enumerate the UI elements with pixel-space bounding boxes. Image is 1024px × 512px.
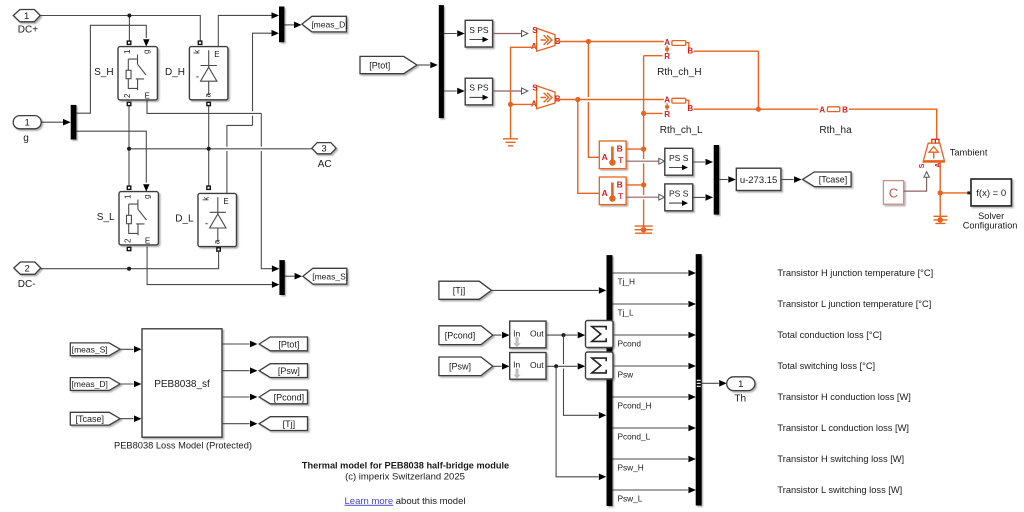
svg-text:Tj_H: Tj_H [618,276,636,286]
svg-text:a: a [203,93,212,98]
svg-text:S: S [532,84,538,93]
svg-text:PEB8038 Loss Model (Protected): PEB8038 Loss Model (Protected) [114,441,252,451]
svg-text:g: g [142,195,151,199]
svg-text:Tambient: Tambient [950,148,988,158]
svg-text:Out: Out [530,360,544,370]
svg-text:Rth_ha: Rth_ha [819,125,852,136]
svg-text:Transistor H junction temperat: Transistor H junction temperature [°C] [777,268,933,278]
svg-text:E: E [145,236,150,245]
svg-text:[meas_S]: [meas_S] [312,272,348,282]
svg-text:[Ptot]: [Ptot] [369,60,390,70]
svg-text:B: B [687,46,693,55]
svg-text:[Ptot]: [Ptot] [278,339,299,349]
svg-text:Learn more about this model: Learn more about this model [345,496,466,507]
svg-text:Pcond: Pcond [618,338,642,348]
svg-text:Configuration: Configuration [963,221,1018,231]
svg-text:R: R [664,52,670,61]
svg-text:B: B [617,143,623,153]
svg-text:A: A [819,106,825,115]
svg-text:C: C [889,185,898,200]
svg-text:DC+: DC+ [18,25,38,36]
svg-text:Psw: Psw [618,369,635,379]
svg-text:Total conduction loss [°C]: Total conduction loss [°C] [777,330,882,340]
svg-text:Solver: Solver [978,211,1004,221]
svg-text:[Psw]: [Psw] [449,362,471,372]
svg-text:[Psw]: [Psw] [278,366,300,376]
svg-text:B: B [617,179,623,189]
svg-text:[Pcond]: [Pcond] [445,330,476,340]
svg-text:1: 1 [123,194,132,199]
svg-text:[meas_S]: [meas_S] [72,345,108,355]
svg-text:[Tj]: [Tj] [283,419,296,429]
svg-text:E: E [145,91,150,100]
svg-text:A: A [602,188,608,198]
svg-text:(c) imperix Switzerland 2025: (c) imperix Switzerland 2025 [345,472,465,483]
svg-text:1: 1 [24,11,29,22]
svg-text:2: 2 [123,238,132,243]
svg-text:T: T [618,155,624,165]
svg-text:[Pcond]: [Pcond] [274,392,305,402]
svg-text:A: A [602,152,608,162]
svg-text:g: g [23,133,29,144]
svg-text:E: E [223,197,228,206]
svg-text:Rth_ch_H: Rth_ch_H [657,67,701,78]
svg-text:u-273.15: u-273.15 [740,175,778,186]
svg-text:E: E [214,50,219,59]
svg-text:Transistor H conduction loss [: Transistor H conduction loss [W] [777,392,910,402]
svg-text:2: 2 [25,264,30,275]
svg-text:Transistor L switching loss [W: Transistor L switching loss [W] [777,485,902,495]
svg-text:Tj_L: Tj_L [618,307,635,317]
svg-text:T: T [618,191,624,201]
svg-text:DC-: DC- [18,279,36,290]
svg-text:S_H: S_H [94,67,113,78]
svg-text:D_L: D_L [175,214,194,225]
svg-text:[meas_D]: [meas_D] [311,20,347,30]
svg-text:In: In [513,328,520,338]
svg-text:S: S [532,26,538,35]
svg-text:S_L: S_L [97,212,115,223]
svg-text:Transistor L conduction loss [: Transistor L conduction loss [W] [777,423,909,433]
svg-text:R: R [664,110,670,119]
svg-text:In: In [513,360,520,370]
svg-text:Transistor H switching loss [W: Transistor H switching loss [W] [777,454,904,464]
svg-text:Rth_ch_L: Rth_ch_L [660,125,703,136]
svg-text:S: S [919,163,926,168]
svg-text:a: a [212,239,221,244]
svg-text:1: 1 [738,379,743,390]
svg-text:B: B [687,104,693,113]
svg-text:Psw_H: Psw_H [618,462,644,472]
svg-text:Pcond_H: Pcond_H [618,400,652,410]
svg-text:1: 1 [123,49,132,54]
svg-text:3: 3 [321,144,326,155]
svg-text:Psw_L: Psw_L [618,493,643,503]
svg-text:AC: AC [318,159,332,170]
svg-text:[Tcase]: [Tcase] [819,175,848,185]
svg-text:Pcond_L: Pcond_L [618,431,651,441]
svg-text:1: 1 [25,118,30,129]
svg-text:Transistor L junction temperat: Transistor L junction temperature [°C] [777,299,931,309]
svg-text:PS S: PS S [669,188,689,198]
svg-text:2: 2 [123,93,132,98]
svg-text:Total switching loss [°C]: Total switching loss [°C] [777,361,875,371]
svg-text:PEB8038_sf: PEB8038_sf [154,379,210,390]
svg-text:[meas_D]: [meas_D] [72,379,108,389]
svg-text:D_H: D_H [165,67,185,78]
svg-text:g: g [142,50,151,54]
svg-text:B: B [842,106,848,115]
svg-text:PS S: PS S [669,153,689,163]
svg-text:Thermal model for PEB8038 half: Thermal model for PEB8038 half-bridge mo… [302,461,509,471]
svg-text:Th: Th [734,394,746,405]
svg-text:S PS: S PS [469,25,489,35]
svg-text:S PS: S PS [469,83,489,93]
svg-text:f(x) = 0: f(x) = 0 [976,188,1006,199]
svg-text:[Tj]: [Tj] [453,286,466,296]
svg-text:[Tcase]: [Tcase] [75,414,104,424]
svg-text:Out: Out [530,329,544,339]
